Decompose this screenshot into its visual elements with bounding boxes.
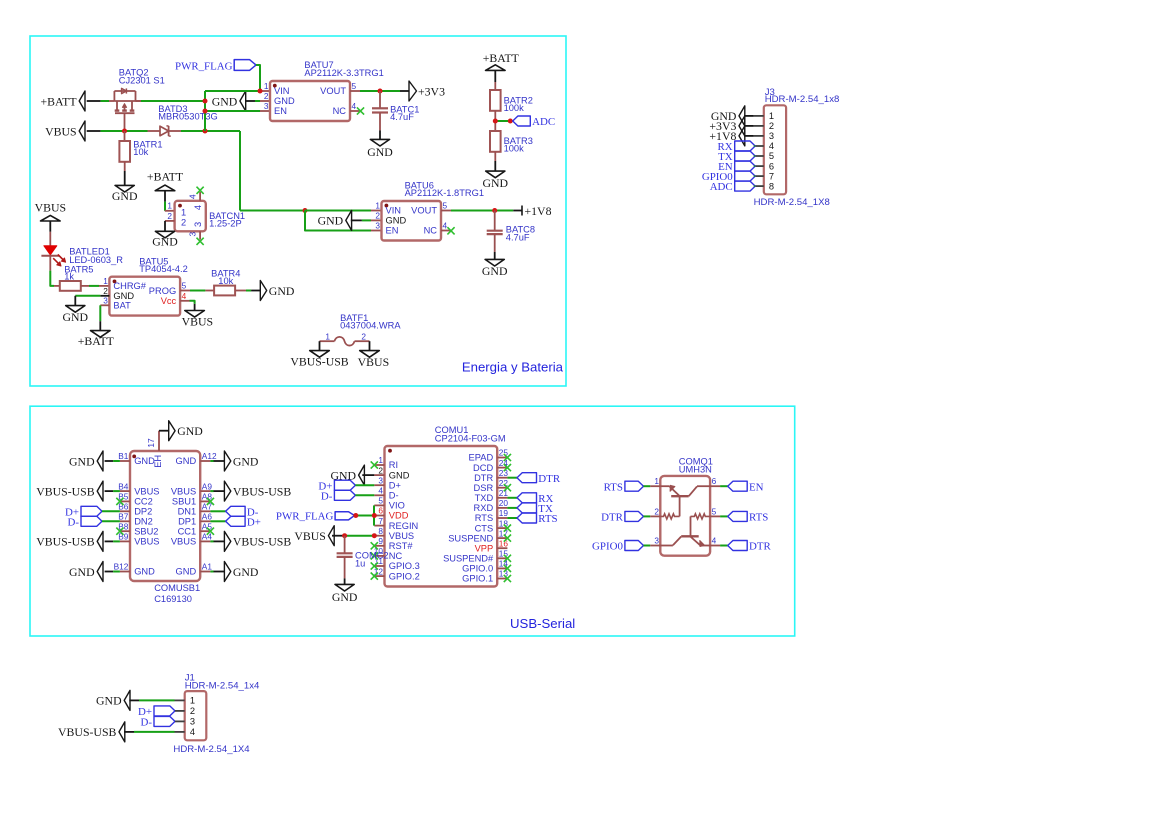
- svg-text:7: 7: [378, 516, 383, 526]
- hier label GPIO0 at COMQ1 pin3: [592, 541, 660, 553]
- svg-text:SBU2: SBU2: [134, 526, 158, 536]
- label J3 HDR-M-2.54_1x8: [765, 87, 840, 105]
- svg-text:B6: B6: [118, 502, 129, 512]
- junction VBUS pin8: [372, 533, 377, 538]
- svg-text:1: 1: [769, 111, 774, 121]
- svg-text:2: 2: [769, 121, 774, 131]
- junction VIN pin1: [258, 89, 263, 94]
- svg-text:B4: B4: [118, 481, 129, 491]
- svg-text:RTS: RTS: [475, 513, 493, 523]
- svg-text:CHRG#: CHRG#: [113, 281, 146, 291]
- svg-text:D-: D-: [68, 516, 80, 528]
- wire +BATT to BATCN1 pin1: [165, 191, 175, 211]
- svg-text:GND: GND: [318, 214, 344, 228]
- power VBUS below BATU5: [182, 311, 213, 329]
- global label +3V3: [409, 81, 445, 101]
- diode BATD3 MBR0530T3G: [160, 126, 171, 136]
- global label GND A-side: [224, 451, 259, 471]
- label COMQ1 UMH3N: [679, 457, 713, 475]
- svg-text:VBUS-USB: VBUS-USB: [36, 484, 94, 498]
- hier label ADC at J3: [710, 181, 756, 193]
- svg-text:GPIO0: GPIO0: [592, 541, 623, 553]
- svg-text:1: 1: [325, 331, 330, 341]
- no-connect X BATU7: [357, 107, 364, 114]
- wire VOUT to BATC1: [379, 91, 381, 108]
- no-connect X BATCN1 pin3: [197, 238, 204, 245]
- svg-text:CP2104-F03-GM: CP2104-F03-GM: [435, 434, 506, 444]
- svg-text:1: 1: [264, 81, 269, 91]
- svg-text:GND: GND: [212, 94, 238, 108]
- svg-text:VBUS: VBUS: [134, 486, 159, 496]
- no-connect X COMU1 right y467.6: [504, 464, 511, 471]
- svg-text:4.7uF: 4.7uF: [390, 112, 414, 122]
- label COMU1 CP2104-F03-GM: [435, 425, 506, 444]
- svg-text:5: 5: [443, 201, 448, 211]
- svg-text:DN1: DN1: [178, 507, 197, 517]
- hier label D+ at COMU1 pin3: [318, 480, 374, 492]
- transistor BATQ2 CJ2301: [114, 88, 141, 131]
- wire COMC2 to ground: [344, 557, 346, 585]
- svg-text:ADC: ADC: [532, 116, 555, 128]
- pin NC BATU6: [441, 230, 450, 232]
- svg-text:2: 2: [378, 465, 383, 475]
- svg-text:10k: 10k: [218, 276, 233, 286]
- svg-text:D+: D+: [389, 480, 401, 490]
- junction +1V8: [492, 208, 497, 213]
- svg-text:GPIO.2: GPIO.2: [389, 571, 420, 581]
- svg-text:2: 2: [375, 210, 380, 220]
- svg-text:2: 2: [103, 286, 108, 296]
- wire GND B-side y461: [105, 460, 120, 462]
- wire gate to BATR1: [124, 131, 126, 141]
- hier label D+ at B6: [65, 506, 120, 518]
- global label GND at COMU1 pin2: [330, 465, 374, 485]
- wire GND A-side y571.5: [210, 571, 224, 573]
- label COMC2 1u: [355, 551, 389, 569]
- svg-text:GND: GND: [269, 284, 295, 298]
- svg-text:GND: GND: [134, 456, 155, 466]
- label COMUSB1 C169130: [154, 583, 200, 604]
- no-connect X COMU1 right y568.4: [504, 565, 511, 572]
- wire GND label to BATU6 pin2: [362, 219, 382, 221]
- global label GND B-side: [69, 451, 103, 471]
- label J3 footprint HDR-M-2.54_1X8: [754, 197, 830, 208]
- svg-text:GND: GND: [69, 565, 95, 579]
- svg-text:VPP: VPP: [475, 543, 494, 553]
- svg-text:CC1: CC1: [178, 526, 197, 536]
- svg-text:10k: 10k: [133, 147, 148, 157]
- svg-text:6: 6: [378, 506, 383, 516]
- svg-text:VBUS-USB: VBUS-USB: [233, 535, 291, 549]
- wire VIO/VDD/REGIN tie: [356, 505, 375, 525]
- hier label TX at COMU1 pin20: [507, 503, 553, 515]
- svg-text:HDR-M-2.54_1X4: HDR-M-2.54_1X4: [173, 744, 250, 755]
- no-connect X COMU1 right y457.5: [504, 454, 511, 461]
- hier label RX at COMU1 pin21: [507, 493, 553, 505]
- global label GND at J3: [711, 106, 745, 126]
- wire BATU5 pin3 to +BATT: [100, 305, 109, 330]
- svg-text:VBUS-USB: VBUS-USB: [290, 354, 348, 368]
- svg-text:2: 2: [190, 706, 195, 716]
- svg-text:+BATT: +BATT: [40, 94, 77, 108]
- resistor BATR3: [490, 131, 501, 152]
- IC BATU7 AP2112K-3.3: [264, 81, 357, 121]
- svg-text:16: 16: [499, 538, 509, 548]
- wire BATR2 to BATR3: [494, 111, 496, 131]
- svg-text:EN: EN: [274, 106, 287, 116]
- svg-text:RTS: RTS: [538, 513, 557, 525]
- svg-text:GND: GND: [367, 145, 393, 159]
- svg-text:VBUS: VBUS: [171, 537, 196, 547]
- svg-text:GND: GND: [96, 694, 122, 708]
- svg-text:REGIN: REGIN: [389, 521, 418, 531]
- svg-text:+BATT: +BATT: [78, 334, 115, 348]
- svg-text:23: 23: [499, 468, 509, 478]
- svg-text:GND: GND: [176, 456, 197, 466]
- pin BATCN1 2 to ground: [165, 221, 175, 231]
- wire GND to J1 pin1: [129, 699, 184, 701]
- svg-text:Vcc: Vcc: [161, 296, 177, 306]
- hier label D- at COMU1 pin4: [321, 490, 374, 502]
- no-connect X A8: [207, 498, 214, 505]
- svg-text:5: 5: [769, 151, 774, 161]
- wire BATR4 to GND label: [235, 290, 260, 292]
- ground below BATR3: [483, 171, 509, 190]
- no-connect X B8: [116, 528, 123, 535]
- svg-text:TP4054-4.2: TP4054-4.2: [139, 264, 188, 274]
- svg-text:GND: GND: [112, 189, 138, 203]
- svg-text:HDR-M-2.54_1X8: HDR-M-2.54_1X8: [754, 197, 830, 208]
- svg-text:+BATT: +BATT: [147, 169, 184, 183]
- resistor R-left inside COMQ1: [660, 514, 679, 519]
- wire BATR5 to BATU5 pin1: [81, 285, 110, 287]
- capacitor BATC1: [372, 108, 388, 112]
- pin BATCN1 4: [199, 192, 201, 201]
- svg-text:VBUS: VBUS: [35, 200, 66, 214]
- wire +1V8 J3: [744, 135, 754, 137]
- no-connect X COMU1 right y487.7: [504, 484, 511, 491]
- svg-text:GND: GND: [152, 234, 178, 248]
- svg-text:VBUS-USB: VBUS-USB: [233, 484, 291, 498]
- svg-text:4: 4: [182, 291, 187, 301]
- svg-text:TXD: TXD: [475, 493, 494, 503]
- svg-text:D-: D-: [321, 490, 333, 502]
- hier label EN at J3: [718, 161, 755, 173]
- svg-text:3: 3: [193, 222, 203, 227]
- power VBUS at BATF1 pin2: [358, 351, 389, 369]
- svg-text:DCD: DCD: [473, 463, 493, 473]
- junction COMC2 tap: [342, 533, 347, 538]
- svg-text:1k: 1k: [64, 272, 74, 282]
- svg-text:LED-0603_R: LED-0603_R: [69, 255, 123, 265]
- ground below BATCN1: [152, 231, 178, 248]
- wire VBUS-USB A-side y491.1: [210, 490, 224, 492]
- svg-text:PROG: PROG: [149, 286, 176, 296]
- label BATCN1 1.25-2P: [209, 211, 245, 228]
- global label VBUS: [45, 121, 100, 141]
- svg-text:AP2112K-3.3TRG1: AP2112K-3.3TRG1: [304, 68, 383, 78]
- svg-text:AP2112K-1.8TRG1: AP2112K-1.8TRG1: [405, 188, 484, 198]
- svg-text:HDR-M-2.54_1x8: HDR-M-2.54_1x8: [765, 94, 840, 105]
- svg-text:EPAD: EPAD: [469, 453, 494, 463]
- wire +BATT to Q2: [101, 100, 115, 102]
- label BATR3 100k: [504, 136, 533, 154]
- svg-text:SUSPEND: SUSPEND: [448, 533, 493, 543]
- wire BATR3 to ground: [494, 152, 496, 171]
- svg-text:1u: 1u: [355, 559, 365, 569]
- label BATC8 4.7uF: [506, 225, 535, 243]
- LED BATLED1: [41, 246, 65, 266]
- power flag PWR_FLAG: [175, 60, 256, 73]
- wire VBUS to diode: [101, 130, 160, 132]
- svg-text:VBUS: VBUS: [182, 314, 213, 328]
- junction VOUT: [378, 89, 383, 94]
- ground below BATR1: [112, 185, 138, 203]
- no-connect X COMU1 left y555.9: [371, 552, 378, 559]
- power +BATT below BATU5: [78, 331, 115, 348]
- svg-text:VBUS: VBUS: [358, 355, 389, 369]
- svg-text:5: 5: [378, 496, 383, 506]
- pins COMU1: [374, 458, 507, 579]
- svg-text:DP2: DP2: [134, 507, 152, 517]
- pins J3: [754, 116, 764, 186]
- svg-text:VBUS: VBUS: [171, 486, 196, 496]
- svg-text:DP1: DP1: [178, 517, 196, 527]
- svg-text:3: 3: [188, 232, 198, 237]
- global label VBUS at COMU1 pin8: [294, 526, 344, 546]
- svg-text:GND: GND: [176, 567, 197, 577]
- svg-text:3: 3: [264, 101, 269, 111]
- svg-text:VBUS-USB: VBUS-USB: [36, 535, 94, 549]
- svg-text:Energia y Bateria: Energia y Bateria: [462, 360, 564, 375]
- global label GND A-side: [224, 562, 259, 582]
- global label +BATT: [40, 91, 100, 111]
- svg-text:PWR_FLAG: PWR_FLAG: [175, 60, 233, 72]
- svg-text:GND: GND: [233, 565, 259, 579]
- svg-text:VBUS: VBUS: [389, 531, 414, 541]
- resistor BATR5: [60, 281, 81, 291]
- wire VOUT to +1V8: [441, 210, 522, 212]
- svg-text:3: 3: [103, 296, 108, 306]
- svg-text:4: 4: [193, 205, 203, 210]
- svg-text:1: 1: [654, 476, 659, 486]
- power +BATT at BATCN1: [147, 169, 184, 190]
- svg-text:6: 6: [769, 161, 774, 171]
- svg-text:3: 3: [378, 475, 383, 485]
- global label VBUS-USB A-side: [224, 531, 291, 551]
- ground below BATC8: [482, 259, 508, 278]
- svg-text:GND: GND: [69, 454, 95, 468]
- wire PROG to BATR4: [180, 290, 214, 292]
- hier label ADC: [513, 116, 555, 128]
- connector J1 HDR-M-2.54_1x4: [185, 691, 207, 740]
- resistor BATR2: [490, 90, 501, 111]
- no-connect X COMU1 left y566: [371, 562, 378, 569]
- wire VBUS-USB B-side y491.1: [105, 490, 120, 492]
- svg-text:3: 3: [769, 131, 774, 141]
- wire to BATU6 VIN and EN: [305, 211, 382, 231]
- global label VBUS-USB A-side: [224, 481, 291, 501]
- svg-text:VIO: VIO: [389, 501, 405, 511]
- wire VBUS to pin8: [345, 535, 375, 537]
- label BATC1 4.7uF: [390, 104, 419, 122]
- svg-text:VBUS: VBUS: [134, 537, 159, 547]
- global label VBUS-USB B-side: [36, 531, 103, 551]
- no-connect X BATU6: [447, 227, 454, 234]
- fuse BATF1: [320, 331, 370, 350]
- svg-text:VOUT: VOUT: [320, 86, 346, 96]
- junction VDD: [372, 513, 377, 518]
- svg-text:GND: GND: [483, 176, 509, 190]
- svg-text:A4: A4: [202, 532, 213, 542]
- svg-text:B1: B1: [118, 451, 129, 461]
- wire GND A-side y461: [210, 460, 224, 462]
- svg-text:GND: GND: [63, 310, 89, 324]
- hier label D- at B7: [68, 516, 120, 528]
- svg-text:A6: A6: [202, 512, 213, 522]
- label BATR5 1k: [64, 264, 93, 281]
- svg-text:4: 4: [190, 727, 195, 737]
- svg-text:GND: GND: [389, 470, 410, 480]
- hier label RTS at COMQ1 pin1: [604, 481, 661, 493]
- global label GND B-side: [69, 562, 103, 582]
- wire BATR1 to ground: [124, 162, 126, 186]
- junction BATU6 VIN node: [303, 208, 308, 213]
- wire GND label to pin2: [255, 100, 270, 102]
- no-connect X COMU1 left y576.1: [371, 573, 378, 580]
- wire BATC1 to ground: [379, 113, 381, 140]
- svg-text:ADC: ADC: [710, 181, 733, 193]
- svg-text:D-: D-: [389, 491, 399, 501]
- wire GND B-side y571.5: [105, 571, 120, 573]
- no-connect X COMU1 right y558.3: [504, 555, 511, 562]
- hier label RX at J3: [718, 141, 756, 153]
- hier label RTS at COMQ1 pin5: [710, 511, 768, 523]
- ground below COMC2: [332, 584, 358, 604]
- svg-text:9: 9: [378, 536, 383, 546]
- sheet title Energia y Bateria: [462, 360, 564, 375]
- svg-text:A12: A12: [202, 451, 217, 461]
- svg-text:B7: B7: [118, 512, 129, 522]
- svg-text:4.7uF: 4.7uF: [506, 232, 530, 242]
- svg-text:DTR: DTR: [749, 541, 772, 553]
- hier label EN at COMQ1 pin6: [710, 481, 764, 493]
- no-connect X COMU1 right y528.1: [504, 525, 511, 532]
- svg-text:20: 20: [499, 498, 509, 508]
- wire VBUS to LED: [49, 221, 51, 246]
- svg-text:5: 5: [712, 506, 717, 516]
- wire Q2 drain to node: [136, 100, 206, 102]
- resistor BATR4: [214, 286, 235, 296]
- label J1 footprint HDR-M-2.54_1X4: [173, 744, 250, 755]
- hier label DTR at COMQ1 pin4: [710, 541, 771, 553]
- junction PWR_FLAG tip: [353, 513, 358, 518]
- label BATU6 AP2112K-1.8TRG1: [405, 180, 484, 198]
- svg-text:PWR_FLAG: PWR_FLAG: [276, 510, 334, 522]
- wire VBUS to COMC2: [344, 536, 346, 554]
- svg-text:DN2: DN2: [134, 517, 153, 527]
- svg-text:C169130: C169130: [154, 594, 192, 604]
- IC COMQ1 UMH3N: [654, 476, 716, 556]
- hier label D- at A7: [210, 506, 258, 518]
- svg-text:VBUS: VBUS: [45, 124, 76, 138]
- pin BATCN1 3: [199, 231, 201, 239]
- label BATD3 MBR0530T3G: [158, 104, 217, 121]
- transistor Q-bottom inside COMQ1: [660, 516, 710, 546]
- svg-text:MBR0530T3G: MBR0530T3G: [158, 112, 217, 122]
- no-connect X BATCN1 pin4: [197, 187, 204, 194]
- junction ADC: [508, 119, 513, 124]
- svg-text:VIN: VIN: [274, 86, 290, 96]
- svg-text:3: 3: [190, 717, 195, 727]
- capacitor BATC8: [487, 231, 503, 234]
- svg-text:RI: RI: [389, 460, 398, 470]
- svg-text:1: 1: [190, 696, 195, 706]
- svg-text:GND: GND: [233, 454, 259, 468]
- svg-text:DTR: DTR: [474, 473, 493, 483]
- wire VBUS-USB A-side y541.4: [210, 540, 224, 542]
- svg-text:1: 1: [375, 201, 380, 211]
- wire VOUT to +3V3: [350, 90, 409, 92]
- power VBUS above LED: [35, 200, 66, 221]
- label BATU7 AP2112K-3.3TRG1: [304, 60, 383, 78]
- connector COMUSB1 C169130: [114, 451, 217, 581]
- global label GND at BATU7 pin2: [212, 91, 255, 111]
- wire GND J3: [744, 115, 754, 117]
- svg-text:GND: GND: [134, 567, 155, 577]
- svg-text:100k: 100k: [504, 144, 525, 154]
- svg-text:NC: NC: [389, 551, 403, 561]
- svg-text:100k: 100k: [504, 103, 525, 113]
- svg-text:19: 19: [499, 508, 509, 518]
- svg-text:DTR: DTR: [601, 512, 624, 524]
- power +BATT above BATR2: [483, 51, 520, 70]
- wire +3V3 J3: [744, 125, 754, 127]
- sheet USB-Serial frame: [30, 406, 795, 636]
- hier label D+ at J1 pin2: [138, 706, 185, 718]
- resistor BATR1: [119, 141, 130, 162]
- svg-text:NC: NC: [333, 106, 347, 116]
- global label GND at J1: [96, 690, 130, 710]
- wire diode to BATU6 net: [169, 131, 305, 211]
- sheet Energia y Bateria frame: [30, 36, 566, 386]
- svg-text:4: 4: [352, 101, 357, 111]
- svg-text:VIN: VIN: [386, 206, 402, 216]
- junction VBUS/gate: [122, 129, 127, 134]
- no-connect X B5: [116, 498, 123, 505]
- wire PWR_FLAG to VIN: [256, 65, 260, 91]
- hier label D+ at A6: [210, 516, 261, 528]
- connector BATCN1 1.25-2P: [167, 194, 205, 237]
- svg-text:BAT: BAT: [113, 301, 131, 311]
- svg-text:GPIO.3: GPIO.3: [389, 561, 420, 571]
- svg-text:4: 4: [188, 194, 198, 199]
- svg-text:RST#: RST#: [389, 541, 414, 551]
- svg-text:8: 8: [769, 181, 774, 191]
- svg-text:6: 6: [712, 476, 717, 486]
- transistor Q-top inside COMQ1: [660, 485, 710, 516]
- resistor R-right inside COMQ1: [691, 514, 711, 519]
- svg-text:D-: D-: [141, 717, 153, 729]
- svg-text:SUSPEND#: SUSPEND#: [443, 554, 494, 564]
- svg-text:B8: B8: [118, 521, 129, 531]
- svg-text:UMH3N: UMH3N: [679, 465, 712, 475]
- label BATQ2 CJ2301 S1: [119, 68, 165, 86]
- junction node A: [203, 99, 208, 104]
- svg-text:7: 7: [769, 171, 774, 181]
- svg-text:2: 2: [181, 217, 186, 227]
- svg-text:0437004.WRA: 0437004.WRA: [340, 321, 401, 331]
